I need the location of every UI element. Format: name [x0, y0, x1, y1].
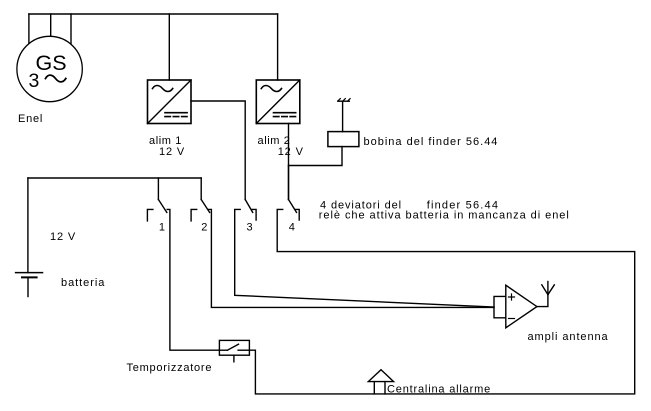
- alim1 dc dashed line: [165, 116, 187, 118]
- antenna right arm: [548, 285, 554, 295]
- switch 2 right contact and output wire to amplifier: [209, 209, 494, 307]
- op-amp triangle: [506, 285, 537, 328]
- svg-text:4: 4: [289, 222, 295, 234]
- generator GS circle: [17, 36, 82, 101]
- wire amplifier output: [537, 295, 548, 307]
- amplifier input rectangle: [494, 296, 506, 317]
- timer inner left lead: [219, 349, 227, 351]
- wire alim1 top lead: [168, 14, 170, 80]
- switch 1 input stub: [157, 178, 159, 200]
- wire alim1 output to switch 3: [191, 101, 245, 200]
- switch 4 input stub: [288, 166, 290, 200]
- svg-text:12 V: 12 V: [50, 231, 76, 243]
- chassis ground hatch 3: [348, 99, 350, 101]
- centralina allarme triangle: [368, 370, 393, 382]
- alim2 dc solid line: [274, 112, 296, 114]
- svg-text:1: 1: [159, 222, 165, 234]
- wire battery bus: [28, 177, 201, 179]
- switch 2 left contact: [191, 209, 197, 221]
- chassis ground bar above coil: [338, 100, 350, 102]
- switch 4 right contact: [295, 209, 299, 220]
- svg-text:GS: GS: [36, 51, 67, 75]
- switch 2 input stub: [200, 178, 202, 200]
- switch 1 left contact: [147, 209, 153, 221]
- antenna left arm: [542, 285, 548, 295]
- timer inner right lead: [238, 349, 249, 351]
- op-amp minus sign: [509, 318, 515, 320]
- power supply alim2 box: [256, 80, 300, 124]
- chassis ground hatch 1: [338, 99, 340, 101]
- wire coil bottom to alim2 lead: [289, 147, 343, 166]
- svg-text:3: 3: [29, 70, 40, 92]
- wire battery bottom stub: [27, 277, 29, 296]
- centralina stem left: [373, 382, 375, 394]
- generator sine symbol: [46, 75, 66, 82]
- wire generator lead 2: [50, 14, 52, 36]
- wire alim2 top lead: [277, 14, 279, 80]
- battery long plate: [16, 272, 43, 274]
- svg-text:ampli antenna: ampli antenna: [528, 331, 609, 343]
- wire alim2 output to switch 4: [288, 124, 290, 200]
- wire top bus: [29, 13, 278, 15]
- op-amp plus sign: [509, 294, 515, 300]
- wire generator lead 1: [28, 14, 30, 44]
- antenna mast: [547, 282, 549, 295]
- battery short plate: [22, 276, 37, 278]
- switch 3 right contact: [252, 209, 256, 220]
- switch 1 right contact and output wire: [167, 209, 219, 350]
- svg-text:Centralina allarme: Centralina allarme: [387, 383, 491, 395]
- switch 2 blade: [201, 200, 209, 213]
- svg-text:2: 2: [201, 222, 207, 234]
- switch 3 blade: [245, 200, 253, 213]
- svg-text:relè che attiva batteria in ma: relè che attiva batteria in mancanza di …: [319, 210, 570, 222]
- alim2 dc dashed line: [274, 116, 296, 118]
- svg-text:3: 3: [247, 222, 253, 234]
- switch 1 blade: [158, 200, 166, 213]
- alim1 diagonal: [148, 80, 192, 124]
- timer temporizzatore box: [219, 340, 249, 355]
- alim2 ac sine: [261, 86, 281, 92]
- switch 3 left contact and output wire: [235, 209, 494, 307]
- switch 4 left contact and loop wire to right edge bottom and timer: [249, 209, 634, 394]
- alim1 ac sine: [153, 86, 173, 92]
- alim1 dc solid line: [165, 112, 187, 114]
- wire generator lead 3: [70, 14, 72, 44]
- power supply alim1 box: [148, 80, 192, 124]
- timer actuator tick: [233, 355, 235, 362]
- svg-text:12 V: 12 V: [159, 146, 185, 158]
- switch 4 blade: [289, 200, 297, 213]
- wire coil top lead: [342, 101, 344, 131]
- timer inner blade: [227, 344, 238, 350]
- wire battery top lead: [27, 178, 29, 273]
- relay coil bobina rectangle: [328, 132, 359, 147]
- svg-text:batteria: batteria: [61, 277, 105, 289]
- chassis ground hatch 2: [343, 99, 345, 101]
- svg-text:Enel: Enel: [18, 113, 43, 125]
- svg-text:12 V: 12 V: [278, 146, 304, 158]
- centralina stem right: [384, 382, 386, 394]
- svg-text:bobina del finder 56.44: bobina del finder 56.44: [364, 136, 499, 148]
- svg-text:Temporizzatore: Temporizzatore: [127, 362, 213, 374]
- alim2 diagonal: [256, 80, 300, 124]
